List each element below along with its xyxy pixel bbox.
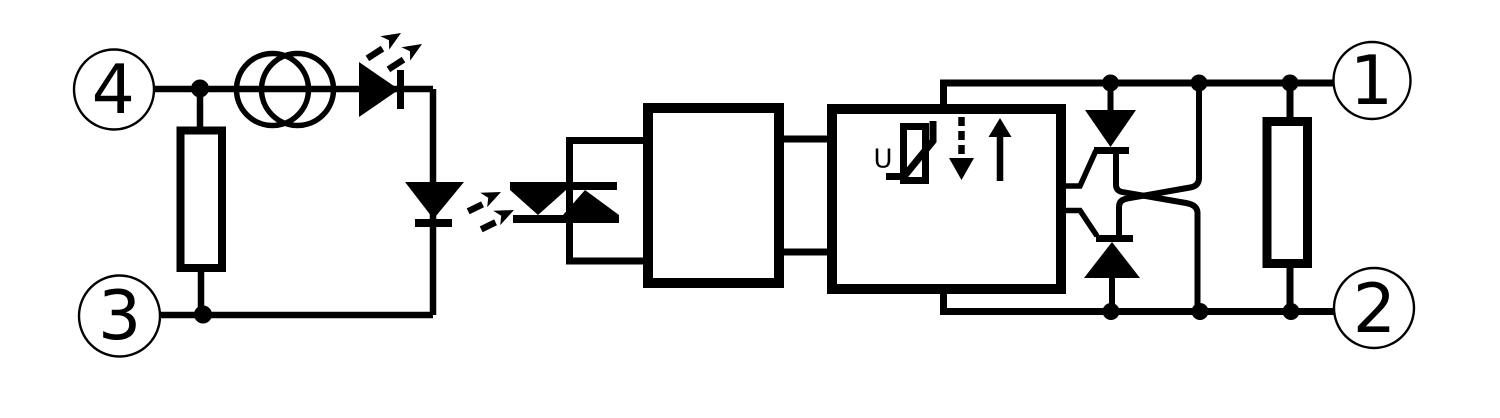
photon arrow b — [476, 202, 517, 233]
SCR Q1 gate — [1061, 151, 1096, 187]
SCR Q1 — [1085, 110, 1136, 154]
trigger box U2 — [832, 109, 1061, 289]
bottom rail to terminal 2 — [940, 308, 1334, 315]
phototriac V1 — [510, 182, 619, 223]
SCR Q2 gate — [1061, 211, 1097, 237]
node bottom rail resistor — [1283, 303, 1300, 320]
node top rail Q1 — [1102, 75, 1119, 92]
SCR Q1 cathode to bottom rail — [1116, 152, 1198, 312]
top rail to terminal 1 — [940, 80, 1334, 87]
LED D1 indicator — [359, 62, 404, 117]
SCR Q2 — [1084, 235, 1140, 278]
terminal 1 — [1334, 42, 1411, 119]
varistor symbol in U2 — [886, 121, 933, 181]
node bottom rail Q2 — [1103, 303, 1120, 320]
node bottom rail Q1 — [1192, 303, 1209, 320]
wire LED cathode down branch — [430, 89, 437, 315]
wire from terminal 3 to LED cathode branch — [160, 312, 433, 319]
SCR Q2 anode wire — [1109, 276, 1115, 312]
SCR Q1 anode wire — [1108, 83, 1114, 112]
node top rail resistor — [1282, 75, 1299, 92]
up arrow in U2 — [989, 118, 1012, 181]
resistor R input — [181, 131, 223, 269]
wire U1 to U2 bottom — [779, 249, 837, 256]
amplifier box U1 — [648, 108, 779, 283]
wire U1 to U2 top — [779, 136, 837, 143]
current source G1 — [237, 54, 334, 126]
wire U2 to top rail — [940, 83, 947, 109]
node junction at resistor bottom — [194, 306, 212, 324]
wire U2 to bottom rail — [940, 289, 947, 312]
wire from terminal 4 to LED anode — [154, 86, 433, 93]
node top rail Q2 — [1191, 75, 1208, 92]
dashed down arrow in U2 — [949, 117, 974, 180]
terminal 3 — [79, 276, 160, 357]
wire resistor bottom stub — [1287, 263, 1294, 312]
terminal 4 — [74, 50, 154, 130]
LED D1 emission arrow a — [361, 26, 405, 62]
node junction at resistor top — [191, 80, 209, 98]
terminal 2 — [1334, 268, 1414, 348]
optocoupler LED D2 — [405, 182, 464, 227]
photon arrow a — [463, 184, 504, 215]
wire junction to resistor — [197, 89, 204, 128]
label U — [876, 149, 891, 168]
wire resistor to bottom node — [198, 268, 205, 315]
SCR Q2 cathode to top rail — [1119, 83, 1199, 238]
wire resistor top stub — [1287, 83, 1294, 121]
phototriac wires — [566, 137, 650, 264]
LED D1 emission arrow b — [382, 37, 426, 73]
resistor R output — [1267, 122, 1308, 264]
